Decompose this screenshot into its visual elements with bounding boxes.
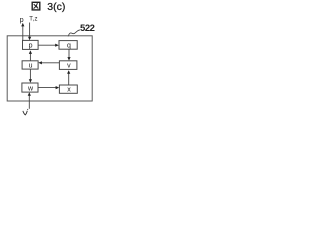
svg-text:v: v xyxy=(67,62,71,69)
svg-text:w: w xyxy=(27,85,34,92)
svg-text:3(c): 3(c) xyxy=(47,1,65,13)
svg-text:p: p xyxy=(20,15,24,24)
svg-text:T,z: T,z xyxy=(29,17,38,23)
svg-text:x: x xyxy=(67,86,71,93)
svg-text:u: u xyxy=(29,62,33,69)
svg-text:q: q xyxy=(67,42,71,49)
svg-text:p: p xyxy=(29,43,33,50)
svg-text:522: 522 xyxy=(80,23,95,34)
